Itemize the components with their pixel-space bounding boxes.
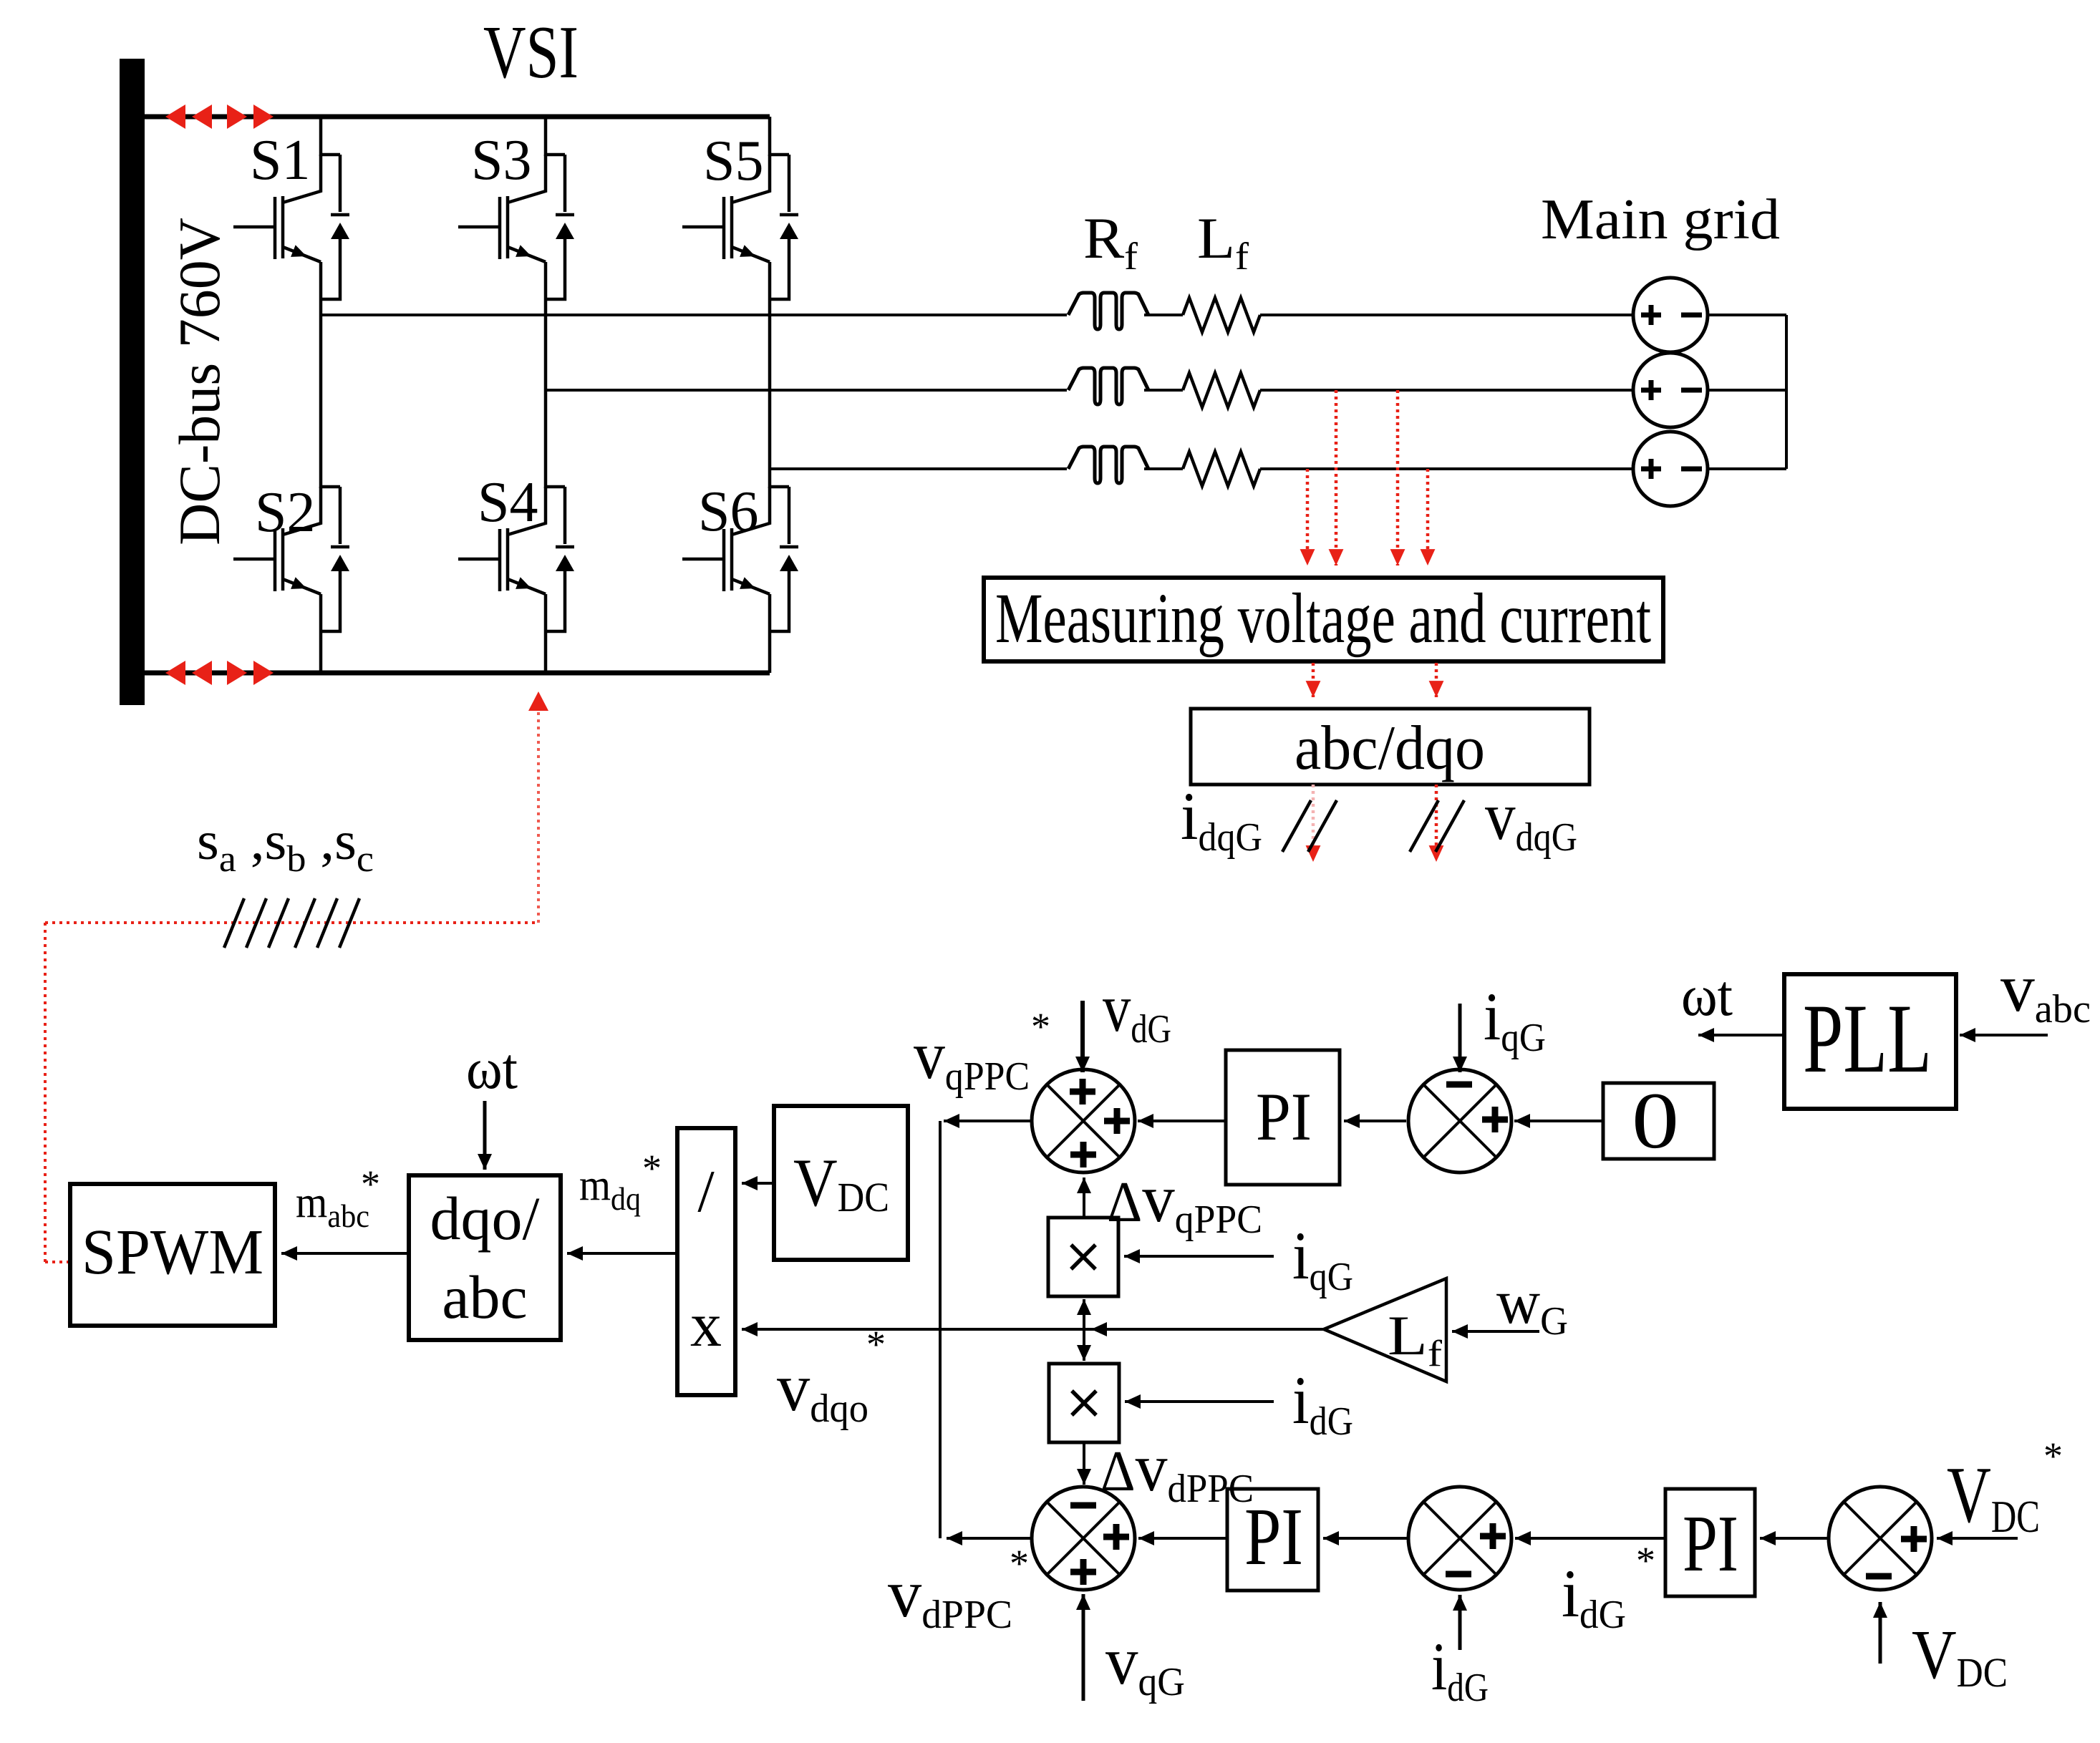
svg-text:ωt: ωt <box>1681 963 1733 1028</box>
svg-text:ωt: ωt <box>466 1036 518 1101</box>
svg-text:Main grid: Main grid <box>1541 188 1780 251</box>
svg-text:abc/dqo: abc/dqo <box>1295 714 1485 783</box>
svg-text:VSI: VSI <box>483 10 579 94</box>
svg-text:*: * <box>1636 1539 1655 1582</box>
svg-text:PI: PI <box>1683 1500 1738 1588</box>
svg-text:*: * <box>1010 1542 1029 1585</box>
svg-text:PI: PI <box>1244 1491 1303 1582</box>
svg-text:S4: S4 <box>478 471 538 534</box>
svg-text:PLL: PLL <box>1803 984 1932 1093</box>
svg-text:*: * <box>1031 1005 1050 1048</box>
svg-text:*: * <box>642 1147 662 1190</box>
svg-text:*: * <box>2043 1434 2063 1477</box>
svg-text:SPWM: SPWM <box>82 1217 263 1288</box>
svg-text:S2: S2 <box>255 481 316 544</box>
svg-text:DC-bus 760V: DC-bus 760V <box>167 218 232 545</box>
svg-text:*: * <box>361 1162 380 1205</box>
svg-text:abc: abc <box>442 1263 527 1331</box>
svg-text:S6: S6 <box>698 480 759 543</box>
svg-text:/: / <box>697 1158 715 1225</box>
svg-text:S1: S1 <box>250 129 311 192</box>
svg-text:dqo/: dqo/ <box>430 1184 540 1253</box>
svg-text:S5: S5 <box>703 130 764 193</box>
svg-text:x: x <box>690 1291 722 1360</box>
svg-text:0: 0 <box>1632 1077 1679 1165</box>
svg-text:PI: PI <box>1256 1079 1312 1155</box>
svg-text:Measuring voltage and current: Measuring voltage and current <box>995 578 1651 658</box>
svg-text:S3: S3 <box>471 129 532 192</box>
svg-text:*: * <box>866 1323 886 1366</box>
